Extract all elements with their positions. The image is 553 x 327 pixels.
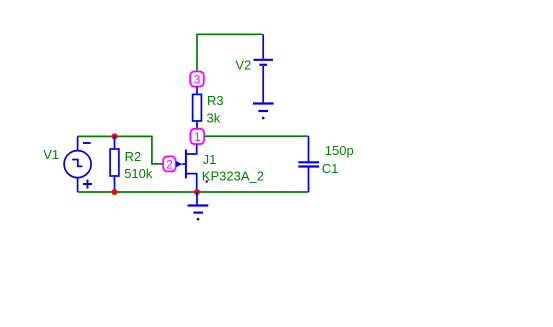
svg-text:V2: V2	[235, 58, 251, 73]
capacitor C1	[298, 136, 319, 192]
wire: V1 top rail to R2 top, corner down to node 2	[78, 136, 163, 164]
wire: node 1 to C1 top	[204, 135, 308, 137]
value labels R2 / 510k	[124, 149, 153, 181]
marker dot of J1	[206, 180, 208, 182]
ground (below V2)	[253, 104, 274, 120]
svg-text:150p: 150p	[325, 143, 354, 158]
resistor R3	[193, 87, 202, 129]
junction dot at R2 bottom	[112, 189, 118, 195]
junction dot at R2 top	[112, 133, 118, 139]
junction dot at J1 source / ground	[194, 189, 200, 195]
svg-text:3: 3	[194, 73, 201, 87]
svg-text:2: 2	[166, 157, 173, 171]
transistor J1 (JFET)	[176, 144, 197, 192]
ground (below J1 source)	[188, 192, 209, 220]
svg-text:1: 1	[194, 130, 201, 144]
battery V2	[254, 34, 273, 102]
wire: bottom rail V1 to C1	[78, 191, 309, 193]
wire: top rail from node 3 up and right to V2	[197, 34, 263, 71]
svg-text:KP323A_2: KP323A_2	[202, 168, 264, 183]
value label V2	[235, 58, 251, 73]
svg-text:V1: V1	[43, 147, 59, 162]
value label V1	[43, 147, 59, 162]
svg-text:510k: 510k	[124, 166, 153, 181]
voltage source V1	[64, 136, 92, 192]
node 1	[190, 129, 204, 144]
svg-text:R2: R2	[125, 149, 142, 164]
value labels 150p / C1	[322, 143, 354, 176]
svg-text:3k: 3k	[207, 110, 221, 125]
value labels J1 / KP323A_2	[202, 152, 264, 183]
node 3	[190, 72, 204, 87]
resistor R2	[110, 136, 119, 192]
svg-text:C1: C1	[322, 161, 339, 176]
svg-text:J1: J1	[203, 152, 217, 167]
node 2	[163, 156, 176, 171]
svg-text:R3: R3	[207, 93, 224, 108]
value labels R3 / 3k	[207, 93, 224, 125]
